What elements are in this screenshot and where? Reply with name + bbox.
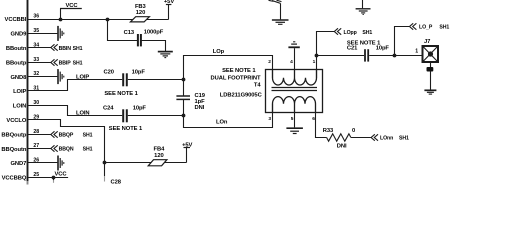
svg-text:LOnn: LOnn [380, 135, 393, 141]
power +5V top [164, 0, 174, 20]
svg-text:LOp: LOp [213, 49, 225, 55]
pin 35 GND9 [11, 28, 40, 38]
IC U? left edge [27, 0, 29, 181]
svg-text:SEE NOTE 1: SEE NOTE 1 [104, 91, 138, 97]
wire C24 to node [128, 115, 184, 117]
pin 29 VCCLO [6, 114, 39, 124]
svg-text:VCCLO: VCCLO [6, 118, 26, 124]
wire pin28 [28, 134, 51, 136]
ground below J7 [424, 90, 436, 94]
ground C13 [158, 52, 173, 58]
svg-text:GND8: GND8 [11, 75, 28, 81]
wire pin34 [28, 47, 51, 49]
wire T4 pin5 to ground below [294, 113, 296, 128]
wire T4 pin1 up to rail [316, 56, 318, 79]
svg-text:SH1: SH1 [83, 147, 93, 153]
svg-text:33: 33 [33, 57, 39, 63]
wire T4 pin4 to ground above [294, 48, 296, 69]
node junction C13 tap [106, 18, 110, 22]
pin 31 LOIP [13, 86, 39, 96]
J7 shield pin [427, 62, 434, 90]
svg-text:LOn: LOn [216, 119, 228, 125]
svg-text:SH1: SH1 [83, 132, 93, 138]
wire pin31 to C20 [28, 80, 123, 91]
svg-text:BBQN: BBQN [59, 147, 74, 153]
connector J7 [415, 39, 438, 62]
wire C21 to J7 [369, 55, 422, 57]
svg-text:BBQP: BBQP [59, 132, 74, 138]
pin 27 BBQoutn [1, 143, 39, 153]
svg-text:LOIP: LOIP [76, 74, 89, 80]
svg-text:LOIP: LOIP [13, 89, 26, 95]
svg-text:C24: C24 [103, 106, 114, 112]
svg-text:SEE NOTE 1: SEE NOTE 1 [109, 126, 143, 132]
svg-text:10pF: 10pF [133, 106, 147, 112]
svg-text:28: 28 [33, 129, 39, 135]
resistor R33 0 DNI [323, 128, 355, 149]
capacitor C19 1pF DNI [176, 80, 205, 116]
svg-text:1: 1 [313, 59, 316, 65]
wire LOn rail [184, 104, 273, 128]
wire C13 branch [108, 20, 138, 41]
svg-text:10pF: 10pF [376, 46, 390, 52]
T4 labels [211, 68, 263, 98]
svg-text:120: 120 [154, 153, 163, 159]
svg-text:C28: C28 [111, 180, 122, 186]
offpage BBQP SH1 [51, 131, 93, 138]
ferrite bead FB4 120 [148, 147, 167, 166]
wire pin36 to FB3 [28, 19, 169, 21]
offpage BBIP SH1 [51, 59, 83, 66]
pin 28 BBQoutp [1, 129, 39, 139]
wire T4 pin6 to R33 [316, 113, 327, 138]
svg-text:VCCBBI: VCCBBI [5, 17, 27, 23]
svg-text:3: 3 [268, 116, 271, 122]
capacitor C24 10pF [103, 106, 146, 133]
node junction VCC tap [59, 18, 63, 22]
capacitor C21 10pF [347, 40, 390, 61]
wire LO_P stub [395, 27, 410, 56]
svg-text:0: 0 [352, 128, 355, 134]
node junction VCC bottom [52, 176, 56, 180]
node LOp/C19 junction [182, 78, 186, 82]
wire C28 stub [104, 163, 106, 177]
svg-text:1: 1 [415, 48, 418, 54]
svg-text:C13: C13 [124, 30, 135, 36]
svg-text:FB4: FB4 [154, 147, 166, 153]
ground pin35 sideways [58, 26, 64, 41]
svg-text:SEE NOTE 1: SEE NOTE 1 [222, 68, 256, 74]
svg-text:5: 5 [291, 116, 294, 122]
svg-text:GND9: GND9 [11, 32, 28, 38]
pin 25 VCCBBQ [2, 172, 40, 182]
wire pin32 [28, 76, 58, 78]
svg-text:LOIN: LOIN [13, 104, 27, 110]
wire pin29 VCCLO run [28, 120, 105, 163]
offpage LO_P SH1 [410, 23, 450, 30]
svg-text:4: 4 [290, 59, 293, 65]
power +5V bottom [182, 142, 192, 162]
power VCC [60, 3, 82, 20]
wire stub down from VCC node [53, 178, 55, 181]
pin 30 LOIN [13, 100, 39, 110]
T4 core [272, 88, 318, 91]
transformer T4 box [266, 70, 323, 113]
T4 pin numbers [268, 59, 315, 122]
svg-text:BBIN: BBIN [59, 46, 72, 52]
svg-text:DUAL FOOTPRINT: DUAL FOOTPRINT [211, 75, 262, 81]
svg-text:BBoutp: BBoutp [6, 60, 27, 66]
pin 36 VCCBBI label [5, 14, 40, 24]
node junction T4 pin1 / LOp out [315, 54, 319, 58]
svg-text:T4: T4 [254, 83, 261, 89]
node LOn/C19 junction [182, 114, 186, 118]
svg-text:+5V: +5V [182, 142, 192, 148]
T4 top winding [273, 70, 317, 86]
svg-text:+5V: +5V [164, 0, 174, 5]
offpage BBQN SH1 [51, 145, 93, 152]
wire pin26 [28, 162, 58, 164]
svg-text:10pF: 10pF [132, 70, 146, 76]
wire LOp rail [184, 56, 273, 80]
ferrite bead FB3 120 [130, 4, 149, 22]
wire C13 to ground [141, 41, 166, 52]
wire pin30 to C24 [28, 106, 123, 116]
svg-text:SH1: SH1 [73, 60, 83, 66]
svg-text:LO_P: LO_P [419, 25, 433, 31]
svg-text:BBQoutp: BBQoutp [1, 132, 26, 138]
svg-text:SH1: SH1 [362, 30, 372, 36]
svg-text:R33: R33 [323, 128, 334, 134]
wire FB4 row [105, 162, 187, 164]
svg-text:LDB211G9005C: LDB211G9005C [220, 93, 263, 99]
wire R33 to LOnn [351, 137, 371, 139]
offpage LOpp SH1 [334, 28, 372, 36]
offpage LOnn SH1 [371, 134, 409, 141]
wire pin33 [28, 62, 51, 64]
ground above T4 (inverted) [288, 42, 299, 48]
svg-text:J7: J7 [424, 39, 430, 45]
svg-text:VCC: VCC [66, 3, 79, 9]
node junction FB4 tap [103, 161, 107, 165]
svg-text:DNI: DNI [337, 143, 347, 149]
offpage BBIN SH1 [51, 44, 83, 52]
svg-text:C20: C20 [104, 70, 114, 76]
svg-text:C21: C21 [347, 46, 358, 52]
pin 32 GND8 [11, 71, 40, 81]
wire pin27 [28, 148, 51, 150]
svg-text:BBIP: BBIP [59, 60, 72, 66]
svg-text:LOIN: LOIN [76, 110, 90, 116]
svg-text:SH1: SH1 [439, 25, 449, 31]
wire C20 to node [128, 79, 184, 81]
ground below T4 [286, 128, 303, 133]
wire rail to C21 [317, 55, 365, 57]
ground stub top (x363) [356, 0, 371, 14]
pin 26 GND7 [11, 158, 40, 168]
svg-text:1000pF: 1000pF [144, 30, 164, 36]
svg-text:BBoutn: BBoutn [6, 46, 27, 52]
capacitor C20 10pF [104, 70, 146, 97]
T4 bottom winding [273, 97, 316, 113]
svg-text:VCCBBQ: VCCBBQ [2, 176, 27, 182]
svg-text:SH1: SH1 [73, 46, 83, 52]
svg-text:BBQoutn: BBQoutn [1, 147, 26, 153]
wire LOpp stub [317, 32, 335, 56]
ground pin26 sideways [58, 156, 64, 171]
pin 33 BBoutp [6, 57, 39, 67]
node junction LO_P tap [393, 54, 397, 58]
svg-text:VCC: VCC [55, 172, 68, 178]
wire pin25 + power VCC bar [28, 177, 69, 179]
pin 34 BBoutn [6, 42, 39, 52]
svg-text:2: 2 [268, 59, 271, 65]
svg-text:SH1: SH1 [399, 135, 409, 141]
svg-text:GND7: GND7 [11, 161, 27, 167]
svg-text:LOpp: LOpp [344, 30, 357, 36]
wire pin35 [28, 33, 58, 35]
ground pin32 sideways [58, 69, 64, 84]
ground stub top (x280) [269, 0, 289, 24]
svg-text:36: 36 [33, 14, 39, 20]
capacitor C13 1000pF [124, 30, 164, 47]
svg-text:DNI: DNI [195, 105, 205, 111]
svg-text:6: 6 [312, 116, 315, 122]
svg-text:120: 120 [136, 10, 145, 16]
